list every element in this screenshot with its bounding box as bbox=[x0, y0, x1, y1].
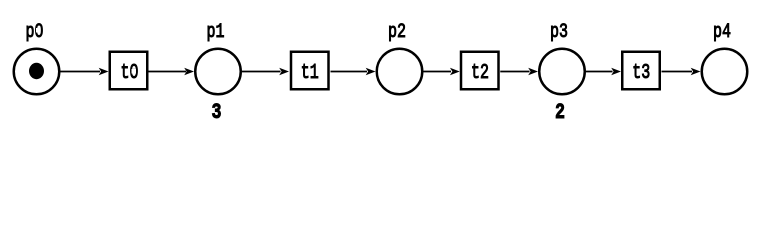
place p3 bbox=[539, 49, 585, 95]
svg-text:2: 2 bbox=[555, 100, 565, 125]
wire p0 to t0 bbox=[60, 71, 101, 73]
wire p3 to t3 bbox=[586, 71, 613, 73]
wire t3 to p4 bbox=[662, 71, 693, 73]
arrowhead into t3 bbox=[611, 68, 621, 75]
svg-text:t2: t2 bbox=[471, 62, 489, 85]
svg-text:t3: t3 bbox=[632, 62, 650, 85]
arrowhead into t0 bbox=[99, 68, 109, 75]
svg-text:p0: p0 bbox=[26, 21, 44, 44]
svg-text:p3: p3 bbox=[550, 21, 568, 44]
place p4 bbox=[702, 49, 748, 95]
arrowhead into p4 bbox=[691, 68, 701, 75]
place p1 bbox=[195, 49, 241, 95]
svg-text:t1: t1 bbox=[301, 62, 319, 85]
wire t2 to p3 bbox=[500, 71, 529, 73]
transition t1 bbox=[291, 52, 329, 90]
wire t1 to p2 bbox=[331, 71, 368, 73]
wire t0 to p1 bbox=[149, 71, 187, 73]
arrowhead into p2 bbox=[366, 68, 376, 75]
arrowhead into t1 bbox=[279, 68, 289, 75]
svg-text:p1: p1 bbox=[207, 21, 225, 44]
transition t0 bbox=[110, 52, 148, 90]
transition t2 bbox=[461, 52, 499, 90]
place p0 bbox=[14, 49, 60, 95]
svg-text:3: 3 bbox=[212, 100, 222, 125]
token in p0 bbox=[29, 63, 44, 79]
place p2 bbox=[377, 49, 423, 95]
arrowhead into t2 bbox=[450, 68, 460, 75]
svg-text:p2: p2 bbox=[388, 21, 406, 44]
wire p1 to t1 bbox=[242, 71, 281, 73]
wire p2 to t2 bbox=[424, 71, 452, 73]
arrowhead into p1 bbox=[184, 68, 194, 75]
arrowhead into p3 bbox=[528, 68, 538, 75]
svg-text:p4: p4 bbox=[713, 21, 731, 44]
transition t3 bbox=[622, 52, 660, 90]
